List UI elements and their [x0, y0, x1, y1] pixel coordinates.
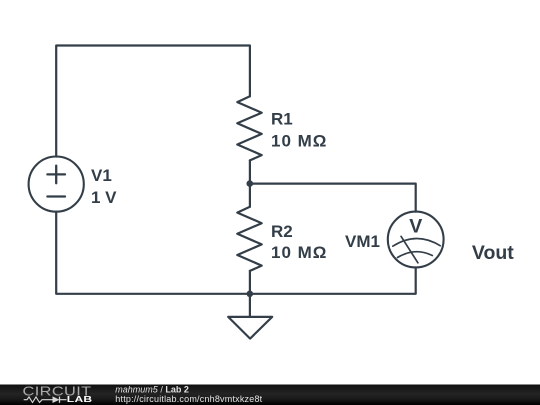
svg-text:V1: V1 — [91, 166, 112, 185]
svg-text:http://circuitlab.com/cnh8vmtx: http://circuitlab.com/cnh8vmtxkze8t — [115, 394, 262, 404]
svg-text:Vout: Vout — [472, 242, 514, 264]
svg-text:1 V: 1 V — [91, 188, 117, 207]
svg-text:VM1: VM1 — [345, 232, 380, 251]
svg-text:R1: R1 — [271, 109, 293, 128]
svg-text:R2: R2 — [271, 222, 293, 241]
svg-text:V: V — [409, 216, 422, 238]
svg-text:10 MΩ: 10 MΩ — [271, 131, 327, 150]
svg-text:10 MΩ: 10 MΩ — [271, 243, 327, 262]
svg-text:LAB: LAB — [67, 396, 93, 405]
